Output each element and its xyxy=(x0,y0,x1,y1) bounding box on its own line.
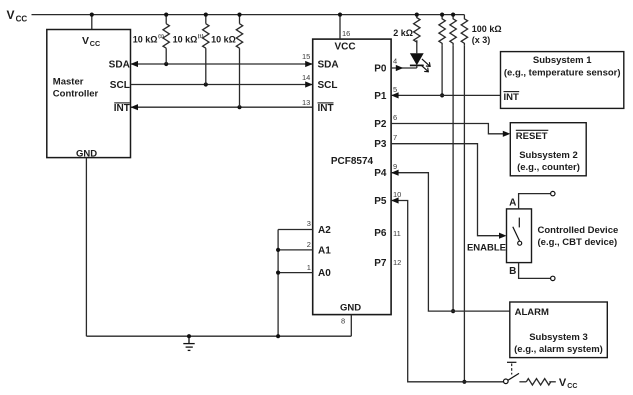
junction dot A0 xyxy=(276,271,280,275)
Master Controller box xyxy=(47,30,131,158)
svg-text:9: 9 xyxy=(393,162,397,171)
label 100 kOhm (x 3) xyxy=(472,24,502,45)
svg-text:11: 11 xyxy=(393,229,401,238)
wire resistor to VCC xyxy=(549,381,556,383)
wire terminal A xyxy=(519,194,551,209)
LED emission arrow 1 xyxy=(422,59,430,67)
Subsystem 2 box xyxy=(510,123,586,176)
svg-text:CC: CC xyxy=(90,39,100,48)
wire VCC rail to pin 16 xyxy=(339,15,341,39)
svg-text:12: 12 xyxy=(393,258,401,267)
svg-text:P7: P7 xyxy=(374,258,387,269)
wire A0 stub xyxy=(278,272,313,274)
svg-text:Subsystem 1: Subsystem 1 xyxy=(533,55,592,66)
svg-text:15: 15 xyxy=(302,52,310,61)
svg-text:10: 10 xyxy=(393,190,401,199)
svg-text:B: B xyxy=(509,266,516,277)
svg-text:100 kΩ: 100 kΩ xyxy=(472,24,502,34)
junction dot R5 top xyxy=(440,13,444,17)
svg-text:1: 1 xyxy=(307,263,311,272)
svg-text:Master: Master xyxy=(53,76,84,87)
svg-text:6: 6 xyxy=(393,113,397,122)
svg-text:P1: P1 xyxy=(374,91,387,102)
wire terminal B xyxy=(519,263,551,279)
junction dot INT pullup xyxy=(237,105,241,109)
svg-text:GND: GND xyxy=(340,302,361,313)
wire master GND down xyxy=(85,158,87,337)
svg-text:8: 8 xyxy=(341,317,345,326)
resistor R8 (pushbutton series) xyxy=(526,379,550,385)
resistor R1 10 kOhm (SDA pullup) xyxy=(163,15,169,64)
svg-text:SDA: SDA xyxy=(109,59,130,70)
svg-text:10 kΩ: 10 kΩ xyxy=(211,35,236,45)
wire pushbutton to resistor xyxy=(519,381,526,383)
wire A1 stub xyxy=(278,249,313,251)
svg-text:10 kΩ: 10 kΩ xyxy=(133,35,158,45)
pushbutton SW1 contact circle xyxy=(504,379,509,384)
svg-text:2 kΩ: 2 kΩ xyxy=(393,28,413,38)
wire SCL bus xyxy=(131,84,313,86)
svg-text:16: 16 xyxy=(342,29,350,38)
wire VCC rail to Master Controller VCC pin xyxy=(91,15,93,30)
svg-text:Controller: Controller xyxy=(53,89,99,100)
svg-text:(e.g., CBT device): (e.g., CBT device) xyxy=(538,237,618,248)
junction dot SDA pullup xyxy=(164,62,168,66)
wire A2 stub xyxy=(278,229,313,231)
junction dot R1 top xyxy=(164,13,168,17)
svg-text:Controlled Device: Controlled Device xyxy=(538,225,619,236)
wire P0 to LED xyxy=(391,67,417,69)
Subsystem 3 box xyxy=(510,302,608,358)
svg-text:V: V xyxy=(559,377,567,389)
resistor R5 100 kOhm xyxy=(439,15,445,96)
svg-text:A: A xyxy=(509,198,516,209)
svg-text:2: 2 xyxy=(307,240,311,249)
label R1 10 kOhm xyxy=(133,34,165,45)
label R2 10 kOhm xyxy=(173,34,204,45)
svg-text:Subsystem 2: Subsystem 2 xyxy=(519,150,578,161)
svg-text:VCC: VCC xyxy=(334,41,355,52)
svg-text:CC: CC xyxy=(16,14,28,23)
svg-text:INT: INT xyxy=(504,92,520,103)
svg-text:P2: P2 xyxy=(374,119,387,130)
arrowhead P4 input xyxy=(391,170,399,176)
svg-text:CC: CC xyxy=(567,383,577,390)
arrowhead RESET input xyxy=(503,131,511,137)
Controlled Device box xyxy=(507,209,532,263)
wire P4 to ALARM xyxy=(391,173,510,311)
svg-text:(1): (1) xyxy=(158,34,164,39)
svg-text:7: 7 xyxy=(393,133,397,142)
svg-text:P0: P0 xyxy=(374,63,387,74)
wire P3 to ENABLE xyxy=(391,144,504,236)
arrowhead SDA into master xyxy=(131,61,139,67)
svg-text:(e.g., temperature sensor): (e.g., temperature sensor) xyxy=(504,68,621,79)
svg-text:(1): (1) xyxy=(198,34,204,39)
svg-text:5: 5 xyxy=(393,85,397,94)
svg-text:INT: INT xyxy=(318,103,334,114)
svg-text:RESET: RESET xyxy=(516,131,548,142)
svg-text:A2: A2 xyxy=(318,225,331,236)
svg-text:P6: P6 xyxy=(374,228,387,239)
arrowhead P5 input xyxy=(391,197,399,203)
wire address bus vertical to ground xyxy=(277,230,279,337)
svg-text:14: 14 xyxy=(302,73,310,82)
svg-text:PCF8574: PCF8574 xyxy=(331,156,374,167)
svg-text:P5: P5 xyxy=(374,196,387,207)
svg-text:ENABLE: ENABLE xyxy=(467,242,506,253)
arrowhead ENABLE input xyxy=(499,233,507,239)
junction dot R5 bottom on P1 line xyxy=(440,93,444,97)
svg-text:A0: A0 xyxy=(318,268,331,279)
junction dot address bus to ground rail xyxy=(276,334,280,338)
svg-text:P4: P4 xyxy=(374,168,387,179)
Subsystem 1 box xyxy=(501,52,624,109)
svg-text:(x 3): (x 3) xyxy=(472,35,491,45)
node VCC label at pushbutton xyxy=(559,377,578,390)
junction dot R7 bottom on switch line xyxy=(462,380,466,384)
wire INT line xyxy=(131,106,313,108)
PCF8574 IC box U1 xyxy=(313,39,391,315)
label master INT (overlined) xyxy=(114,103,130,114)
svg-text:4: 4 xyxy=(393,57,397,66)
junction dot rail/master VCC xyxy=(90,13,94,17)
label master VCC xyxy=(82,35,100,48)
svg-text:(e.g., alarm system): (e.g., alarm system) xyxy=(514,344,603,355)
pushbutton actuator cap xyxy=(507,361,516,363)
junction dot A1 xyxy=(276,248,280,252)
svg-text:Subsystem 3: Subsystem 3 xyxy=(529,332,588,343)
LED emission arrow 2 xyxy=(421,65,428,72)
junction dot R3 top xyxy=(237,13,241,17)
arrowhead P0 output xyxy=(396,65,404,71)
switch S1 inside controlled device xyxy=(513,218,522,246)
junction dot SCL pullup xyxy=(204,82,208,86)
label Subsystem1 INT (overlined) xyxy=(504,92,520,104)
wire P2 to RESET xyxy=(391,124,508,134)
pushbutton blade xyxy=(508,373,519,380)
junction dot ground stem xyxy=(187,334,191,338)
pushbutton actuator (dashed) xyxy=(511,364,513,375)
wire ground rail xyxy=(86,335,351,337)
junction dot rail/pin16 xyxy=(338,13,342,17)
arrowhead SCL into PCF8574 xyxy=(305,81,313,87)
svg-text:A1: A1 xyxy=(318,245,331,256)
resistor R2 10 kOhm (SCL pullup) xyxy=(203,15,209,85)
ground symbol xyxy=(183,336,194,350)
svg-text:10 kΩ: 10 kΩ xyxy=(173,35,198,45)
arrowhead P1 input xyxy=(391,92,399,98)
svg-text:SDA: SDA xyxy=(318,59,339,70)
svg-text:SCL: SCL xyxy=(110,80,130,91)
svg-text:V: V xyxy=(7,8,15,22)
resistor R4 2 kOhm (LED series) xyxy=(414,15,420,54)
wire P1 to Subsystem 1 INT xyxy=(391,94,500,96)
svg-text:INT: INT xyxy=(114,103,130,114)
svg-text:P3: P3 xyxy=(374,139,387,150)
arrowhead INT into master xyxy=(131,104,139,110)
arrowhead SDA into PCF8574 xyxy=(305,61,313,67)
svg-text:SCL: SCL xyxy=(318,80,338,91)
label IC INT (pin 13, overlined) xyxy=(318,103,334,114)
wire IC GND down (pin 8) xyxy=(350,315,352,337)
label RESET (overlined) xyxy=(516,130,549,142)
svg-text:V: V xyxy=(82,35,89,47)
label Master Controller xyxy=(53,76,99,99)
svg-text:(e.g., counter): (e.g., counter) xyxy=(517,162,580,173)
wire top VCC rail xyxy=(32,14,465,16)
terminal A open circle xyxy=(551,191,555,195)
junction dot R2 top xyxy=(204,13,208,17)
junction dot R6 top xyxy=(451,13,455,17)
resistor R6 100 kOhm xyxy=(450,15,456,312)
resistor R7 100 kOhm xyxy=(461,15,467,382)
node VCC supply label xyxy=(7,8,28,23)
resistor R3 10 kOhm (INT pullup) xyxy=(236,15,242,108)
junction dot R6 bottom on ALARM line xyxy=(451,309,455,313)
svg-text:3: 3 xyxy=(307,219,311,228)
wire SDA bus (master to PCF8574) xyxy=(131,63,313,65)
wire P5 to pushbutton xyxy=(391,201,503,382)
terminal B open circle xyxy=(551,276,555,280)
svg-text:13: 13 xyxy=(302,98,310,107)
junction dot 2k top xyxy=(415,13,419,17)
LED D1 xyxy=(410,53,424,68)
svg-text:ALARM: ALARM xyxy=(515,307,549,318)
